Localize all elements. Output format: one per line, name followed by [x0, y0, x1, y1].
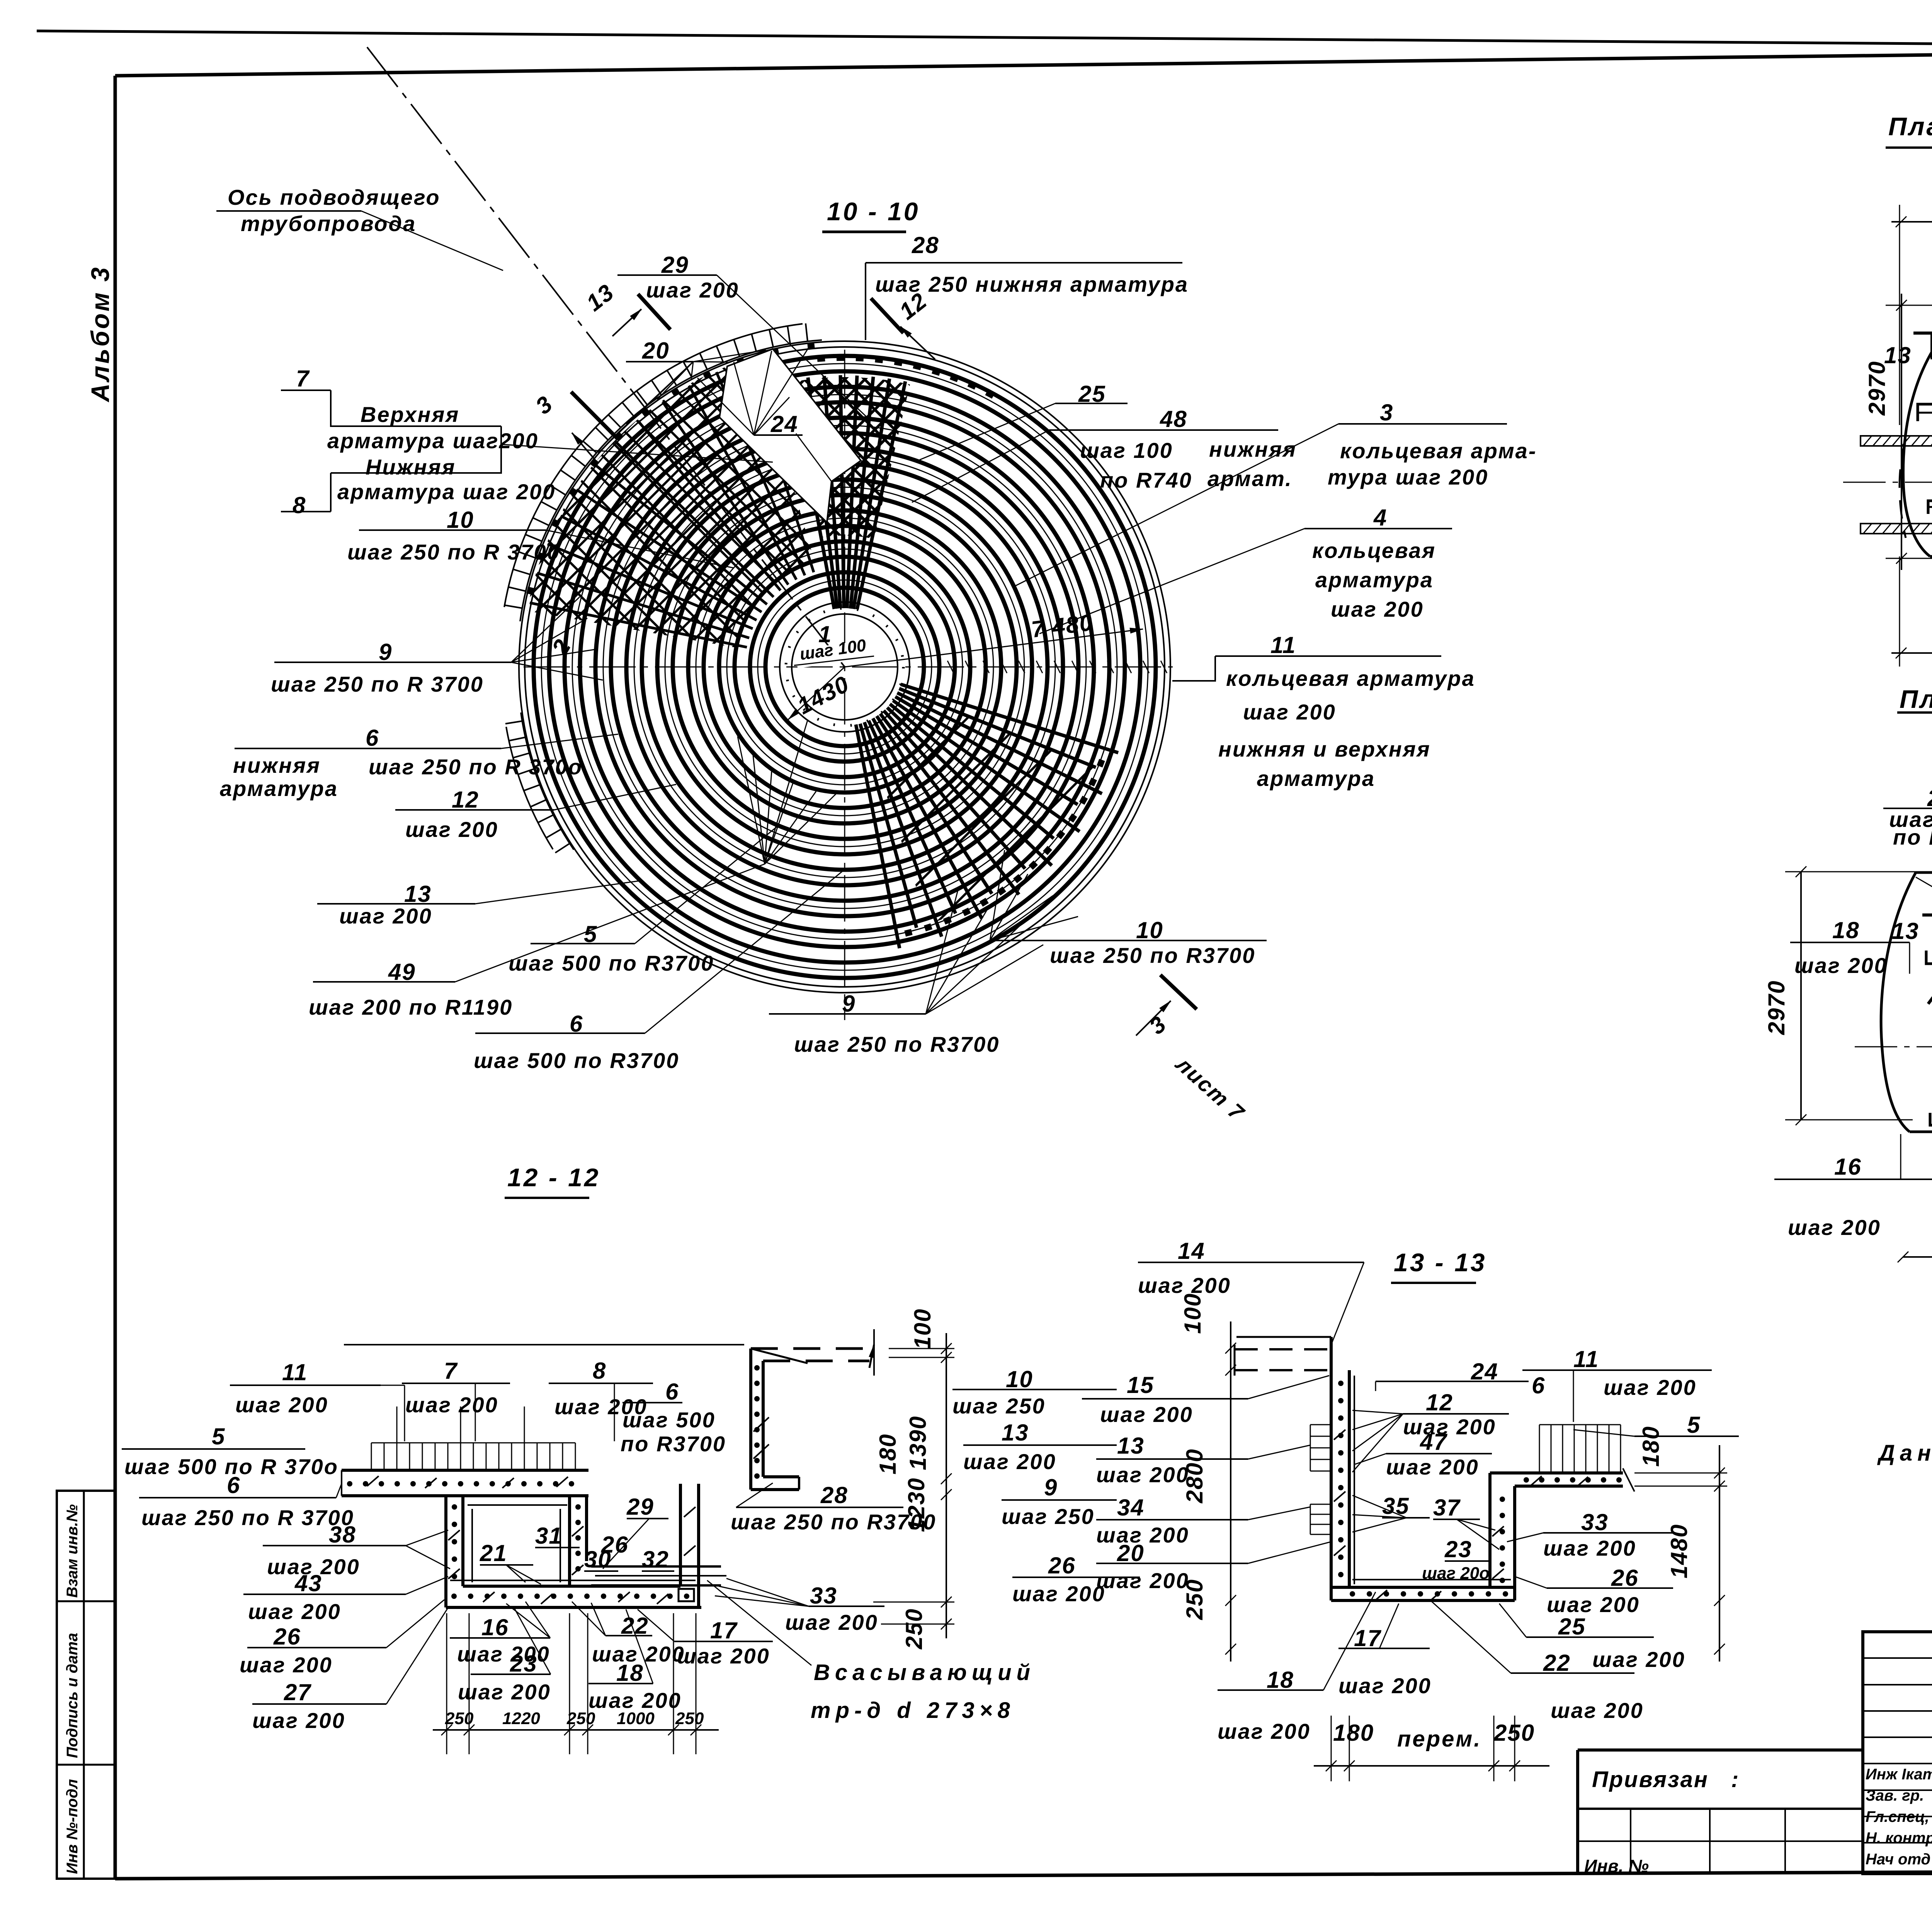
svg-text:11: 11 — [1270, 632, 1296, 658]
svg-text:15: 15 — [1127, 1372, 1154, 1398]
svg-text:арматура шаг 200: арматура шаг 200 — [337, 480, 556, 504]
12-12 wall dots — [452, 1504, 457, 1510]
svg-text:шаг 200: шаг 200 — [1547, 1592, 1640, 1617]
svg-text:шаг 200: шаг 200 — [405, 1393, 498, 1417]
svg-text:нижняя: нижняя — [233, 753, 321, 777]
svg-text:шаг 200: шаг 200 — [235, 1393, 328, 1417]
svg-text:Ось подводящего: Ось подводящего — [228, 185, 440, 209]
svg-text:13: 13 — [1117, 1433, 1145, 1459]
inner dotted ring — [786, 608, 903, 726]
13-13 wall hatch marks — [1334, 1430, 1345, 1440]
top radial bar fan — [857, 381, 905, 609]
svg-text:34: 34 — [1117, 1495, 1145, 1520]
svg-text:250: 250 — [901, 1608, 927, 1650]
13-13 comb above right slab — [1539, 1425, 1540, 1473]
svg-text:шаг 200: шаг 200 — [1794, 953, 1888, 978]
svg-text:тр-д d 273×8: тр-д d 273×8 — [811, 1698, 1015, 1723]
svg-text:шаг 200: шаг 200 — [646, 278, 739, 302]
svg-text:29: 29 — [661, 252, 689, 278]
svg-text:10 - 10: 10 - 10 — [827, 197, 920, 226]
svg-text:перем.: перем. — [1397, 1726, 1481, 1752]
hatch group upper-left in block — [1928, 927, 1932, 1004]
svg-text:24: 24 — [1471, 1359, 1498, 1384]
svg-text:шаг 200: шаг 200 — [252, 1708, 345, 1733]
svg-text:Нач отд: Нач отд — [1866, 1851, 1930, 1868]
svg-text:1230: 1230 — [903, 1478, 929, 1532]
svg-text:10: 10 — [1136, 917, 1163, 943]
svg-text:арматура: арматура — [1257, 766, 1375, 791]
svg-text:армат.: армат. — [1207, 466, 1293, 491]
svg-text:шаг 250 по R3700: шаг 250 по R3700 — [794, 1032, 1000, 1056]
svg-text:Верхняя: Верхняя — [361, 402, 459, 427]
svg-text:250: 250 — [1182, 1579, 1207, 1620]
svg-text:2970: 2970 — [1864, 361, 1890, 416]
svg-text:нижняя: нижняя — [1209, 437, 1297, 461]
svg-text:6: 6 — [366, 725, 379, 751]
svg-text:18: 18 — [616, 1660, 644, 1686]
svg-text:28: 28 — [820, 1482, 848, 1508]
svg-text:17: 17 — [1354, 1625, 1381, 1651]
12-12 inner trough rebar — [468, 1504, 567, 1506]
svg-text:Альбом 3: Альбом 3 — [86, 265, 114, 403]
svg-text:кольцевая арматура: кольцевая арматура — [1226, 666, 1475, 690]
svg-text:2970: 2970 — [1764, 980, 1789, 1035]
radius lines R3700 R2930 — [1916, 877, 1932, 1048]
svg-text:13: 13 — [1892, 918, 1919, 944]
lower-left small band — [521, 713, 574, 850]
svg-text:3: 3 — [1380, 400, 1393, 425]
svg-text:27: 27 — [284, 1679, 311, 1705]
svg-text:31: 31 — [535, 1523, 563, 1549]
thin companion rings — [758, 580, 932, 754]
svg-text:Инж Iкат: Инж Iкат — [1866, 1766, 1932, 1783]
keyhole bottom: left block outline — [1916, 872, 1932, 923]
12-12 slab rebar dots — [347, 1481, 352, 1486]
svg-text:шаг 200: шаг 200 — [963, 1449, 1056, 1474]
outer wall thin rings — [525, 347, 1165, 987]
svg-text:шаг 200: шаг 200 — [1386, 1455, 1479, 1479]
svg-text:Взам инв.№: Взам инв.№ — [64, 1504, 81, 1598]
svg-text:6: 6 — [1532, 1372, 1545, 1398]
13-13 bottom slab — [1331, 1586, 1515, 1589]
svg-text:Данный лист рассматривать: Данный лист рассматривать с листом 5,7. — [1877, 1440, 1932, 1466]
svg-text:План Верхней арматуры: План Верхней арматуры — [1888, 112, 1932, 141]
svg-text:8: 8 — [593, 1358, 606, 1384]
svg-text:20: 20 — [1117, 1540, 1145, 1566]
12-12 wall hatch marks — [448, 1530, 460, 1540]
svg-text:4: 4 — [1373, 505, 1387, 531]
svg-text:13: 13 — [1884, 342, 1912, 368]
13-13 inner bars — [1354, 1376, 1355, 1584]
svg-text:5: 5 — [212, 1423, 225, 1449]
svg-text:шаг 200: шаг 200 — [785, 1610, 878, 1634]
top rebar bars with hooks — [1918, 404, 1932, 421]
upper-left outer form band — [520, 340, 822, 621]
12-12 bottom dim chain — [433, 1729, 719, 1731]
svg-text:17: 17 — [710, 1617, 738, 1643]
svg-text:2800: 2800 — [1182, 1449, 1207, 1503]
svg-text:38: 38 — [329, 1522, 356, 1548]
svg-text:250: 250 — [675, 1709, 704, 1728]
svg-text:Подпись и дата: Подпись и дата — [64, 1633, 81, 1758]
svg-text:29: 29 — [626, 1494, 654, 1520]
svg-text:32: 32 — [642, 1546, 669, 1572]
pipe section square — [679, 1589, 694, 1601]
svg-text:11: 11 — [1573, 1346, 1599, 1372]
svg-text:9: 9 — [379, 639, 392, 665]
svg-text:12: 12 — [452, 787, 479, 813]
svg-text:шаг 20о: шаг 20о — [1422, 1564, 1490, 1583]
svg-text:арматура: арматура — [220, 776, 338, 801]
svg-text:нижняя и верхняя: нижняя и верхняя — [1218, 737, 1431, 761]
svg-text:37: 37 — [1433, 1495, 1461, 1520]
svg-text:шаг 200: шаг 200 — [1338, 1673, 1432, 1698]
svg-text:100: 100 — [1180, 1293, 1206, 1334]
svg-text:Зав. гр.: Зав. гр. — [1866, 1787, 1924, 1804]
svg-text:13: 13 — [1002, 1420, 1029, 1446]
svg-text:16: 16 — [481, 1614, 509, 1640]
scraper bridge white wedge — [719, 349, 861, 522]
svg-text:шаг 200: шаг 200 — [240, 1653, 333, 1677]
bottom keyhole bars: top pair with hooks — [1926, 951, 1932, 978]
svg-text:11: 11 — [282, 1359, 308, 1385]
hash ticks along right centerline — [947, 661, 954, 673]
12-12 peripheral tall wall — [749, 1349, 752, 1490]
plan concentric ring rebar — [765, 588, 924, 746]
привязан box — [1578, 1748, 1863, 1752]
svg-text:28: 28 — [912, 232, 939, 258]
12-12 right dim chain — [946, 1333, 947, 1638]
svg-text:шаг 500 по R3700: шаг 500 по R3700 — [474, 1048, 679, 1073]
svg-text:Нижняя: Нижняя — [366, 455, 456, 479]
center radius dim 7480 — [845, 629, 1143, 667]
section cut 3 bottom right with лист 7 — [1160, 975, 1197, 1009]
svg-text:23: 23 — [510, 1651, 537, 1677]
svg-text:Н. контр: Н. контр — [1866, 1830, 1932, 1847]
svg-text:35: 35 — [1382, 1493, 1410, 1519]
12-12 comb of radial top bars — [344, 1344, 744, 1345]
svg-text::: : — [1731, 1767, 1740, 1792]
svg-text:шаг 200: шаг 200 — [1096, 1568, 1189, 1593]
svg-text:шаг 200: шаг 200 — [1331, 597, 1424, 621]
svg-text:180: 180 — [1333, 1720, 1374, 1746]
svg-text:шаг 250: шаг 250 — [1002, 1504, 1095, 1529]
svg-text:Инв. №: Инв. № — [1584, 1856, 1649, 1876]
svg-text:шаг 200: шаг 200 — [1243, 700, 1336, 724]
svg-text:шаг 200: шаг 200 — [248, 1599, 341, 1624]
svg-text:18: 18 — [1832, 917, 1860, 943]
svg-text:по R740: по R740 — [1100, 468, 1192, 492]
svg-text:26: 26 — [1611, 1565, 1639, 1591]
svg-text:6: 6 — [665, 1379, 679, 1405]
12-12 trough left wall — [444, 1496, 447, 1607]
svg-text:арматура: арматура — [1315, 568, 1434, 592]
svg-text:14: 14 — [1178, 1238, 1205, 1264]
svg-text:25: 25 — [1558, 1614, 1586, 1639]
svg-text:13 - 13: 13 - 13 — [1394, 1248, 1486, 1277]
svg-text:250: 250 — [566, 1709, 595, 1728]
left margin stamp table — [57, 1491, 115, 1879]
svg-text:шаг 200 по R1190: шаг 200 по R1190 — [309, 995, 513, 1019]
svg-text:33: 33 — [810, 1583, 837, 1609]
12-12 right pocket wall — [679, 1484, 682, 1586]
svg-text:49: 49 — [388, 959, 416, 985]
svg-text:шаг 250 по R3700: шаг 250 по R3700 — [1050, 943, 1255, 968]
center radius dim 1430 — [788, 667, 845, 719]
svg-text:арматура шаг200: арматура шаг200 — [327, 429, 539, 453]
12-12 wall foot — [751, 1488, 799, 1491]
svg-text:шаг 200: шаг 200 — [458, 1680, 551, 1704]
svg-text:по R 3650: по R 3650 — [1893, 825, 1932, 849]
svg-text:шаг 250 по R 3700: шаг 250 по R 3700 — [271, 672, 484, 696]
svg-text:Инв №-подл: Инв №-подл — [64, 1779, 81, 1874]
svg-text:шаг 200: шаг 200 — [1788, 1215, 1881, 1240]
rim dots top fan — [985, 389, 995, 399]
svg-text:180: 180 — [875, 1434, 901, 1475]
svg-text:шаг 200: шаг 200 — [339, 904, 432, 928]
svg-text:кольцевая: кольцевая — [1312, 538, 1436, 563]
svg-text:шаг 250 по R 370о: шаг 250 по R 370о — [369, 755, 583, 779]
svg-text:тура шаг 200: тура шаг 200 — [1328, 465, 1488, 489]
svg-text:шаг 500: шаг 500 — [622, 1408, 716, 1432]
svg-text:8: 8 — [293, 492, 306, 518]
13-13 top right slab — [1490, 1471, 1623, 1475]
svg-text:22: 22 — [1543, 1650, 1571, 1676]
svg-text:26: 26 — [273, 1624, 301, 1650]
svg-text:Привязан: Привязан — [1592, 1767, 1709, 1792]
svg-text:1390: 1390 — [905, 1416, 931, 1470]
svg-text:Гл.спец,: Гл.спец, — [1866, 1808, 1929, 1825]
svg-text:48: 48 — [1160, 406, 1187, 432]
12-12 top slab cut dashed — [751, 1347, 869, 1350]
svg-text:13: 13 — [404, 881, 432, 907]
svg-text:шаг 200: шаг 200 — [677, 1644, 770, 1668]
inlet pipe stub walls (hatched) — [1861, 436, 1932, 446]
svg-text:шаг 200: шаг 200 — [1592, 1647, 1685, 1672]
svg-text:12: 12 — [1426, 1389, 1453, 1415]
svg-text:7: 7 — [296, 366, 310, 391]
svg-text:1480: 1480 — [1666, 1524, 1692, 1578]
svg-text:9: 9 — [842, 991, 855, 1017]
svg-text:100: 100 — [910, 1308, 935, 1349]
svg-text:7: 7 — [444, 1358, 458, 1384]
svg-text:шаг 200: шаг 200 — [405, 817, 498, 842]
svg-text:шаг 200: шаг 200 — [1218, 1719, 1311, 1743]
svg-text:шаг 200: шаг 200 — [1096, 1463, 1189, 1487]
svg-text:шаг 100: шаг 100 — [1080, 438, 1173, 463]
svg-text:20: 20 — [642, 338, 670, 364]
centerline keyhole top — [1843, 482, 1932, 483]
svg-text:9: 9 — [1044, 1475, 1058, 1500]
top scan edge line — [37, 31, 1932, 49]
12-12 trough right wall — [568, 1496, 571, 1586]
13-13 outside combs left — [1310, 1424, 1331, 1425]
svg-text:5: 5 — [1687, 1412, 1701, 1438]
svg-text:шаг 200: шаг 200 — [1543, 1536, 1636, 1560]
rim dots upper-left — [807, 342, 815, 350]
svg-text:Всасывающий: Всасывающий — [814, 1660, 1035, 1685]
svg-text:шаг 200: шаг 200 — [1403, 1415, 1496, 1439]
svg-text:16: 16 — [1834, 1154, 1862, 1180]
svg-text:шаг 200: шаг 200 — [1100, 1402, 1193, 1427]
svg-text:шаг 200: шаг 200 — [1551, 1698, 1644, 1723]
svg-text:шаг 250 по R 3700: шаг 250 по R 3700 — [347, 540, 560, 564]
svg-text:26: 26 — [1048, 1553, 1076, 1578]
svg-text:21: 21 — [480, 1540, 507, 1566]
horizontal centerline — [524, 667, 1173, 668]
svg-text:План нижней арматуры: План нижней арматуры — [1900, 685, 1932, 713]
svg-text:6: 6 — [227, 1472, 240, 1498]
bottom-right radial bar fan — [856, 724, 900, 948]
12-12 top slab — [342, 1469, 588, 1472]
svg-text:шаг 200: шаг 200 — [1604, 1375, 1697, 1400]
svg-text:шаг 200: шаг 200 — [1012, 1582, 1105, 1606]
svg-text:шаг 250 нижняя арматура: шаг 250 нижняя арматура — [875, 272, 1189, 296]
12-12 bottom slab — [463, 1585, 680, 1588]
13-13 top-left pipe dashed — [1235, 1348, 1331, 1350]
svg-text:шаг 500 по R3700: шаг 500 по R3700 — [509, 951, 714, 975]
bottom-right fan tip dots — [904, 929, 912, 937]
13-13 right wall — [1488, 1473, 1492, 1587]
inlet pipe axis dash-dot — [367, 47, 845, 667]
svg-text:12 - 12: 12 - 12 — [507, 1163, 600, 1192]
drawing frame border — [115, 46, 1932, 76]
inner hole rings — [792, 614, 898, 720]
svg-text:по R3700: по R3700 — [621, 1432, 726, 1456]
upper-left crosshatch sector radials — [745, 361, 814, 572]
svg-text:43: 43 — [294, 1570, 322, 1596]
12-12 suction pipe — [591, 1565, 721, 1568]
small lower-left leader fan — [738, 736, 765, 864]
svg-text:шаг 250: шаг 250 — [952, 1394, 1046, 1418]
svg-text:33: 33 — [1581, 1509, 1609, 1535]
svg-text:47: 47 — [1420, 1429, 1447, 1455]
svg-text:1000: 1000 — [617, 1709, 655, 1728]
svg-text:10: 10 — [447, 507, 474, 533]
svg-text:кольцевая арма-: кольцевая арма- — [1340, 439, 1537, 463]
vertical centerline — [844, 350, 845, 1020]
svg-text:180: 180 — [1638, 1426, 1664, 1467]
pipe dashed mouth — [1900, 439, 1906, 538]
title block: revision table — [1863, 1632, 1932, 1874]
svg-text:24: 24 — [770, 411, 798, 437]
svg-text:23: 23 — [1444, 1536, 1472, 1562]
svg-text:10: 10 — [1006, 1366, 1033, 1392]
centerline — [1855, 1046, 1932, 1048]
13-13 left wall — [1330, 1337, 1333, 1600]
13-13 rebar dots — [1338, 1381, 1344, 1386]
svg-text:1220: 1220 — [502, 1709, 540, 1728]
svg-text:250: 250 — [445, 1709, 474, 1728]
svg-text:шаг 250 по R 3700: шаг 250 по R 3700 — [141, 1505, 354, 1530]
svg-text:18: 18 — [1267, 1667, 1294, 1693]
